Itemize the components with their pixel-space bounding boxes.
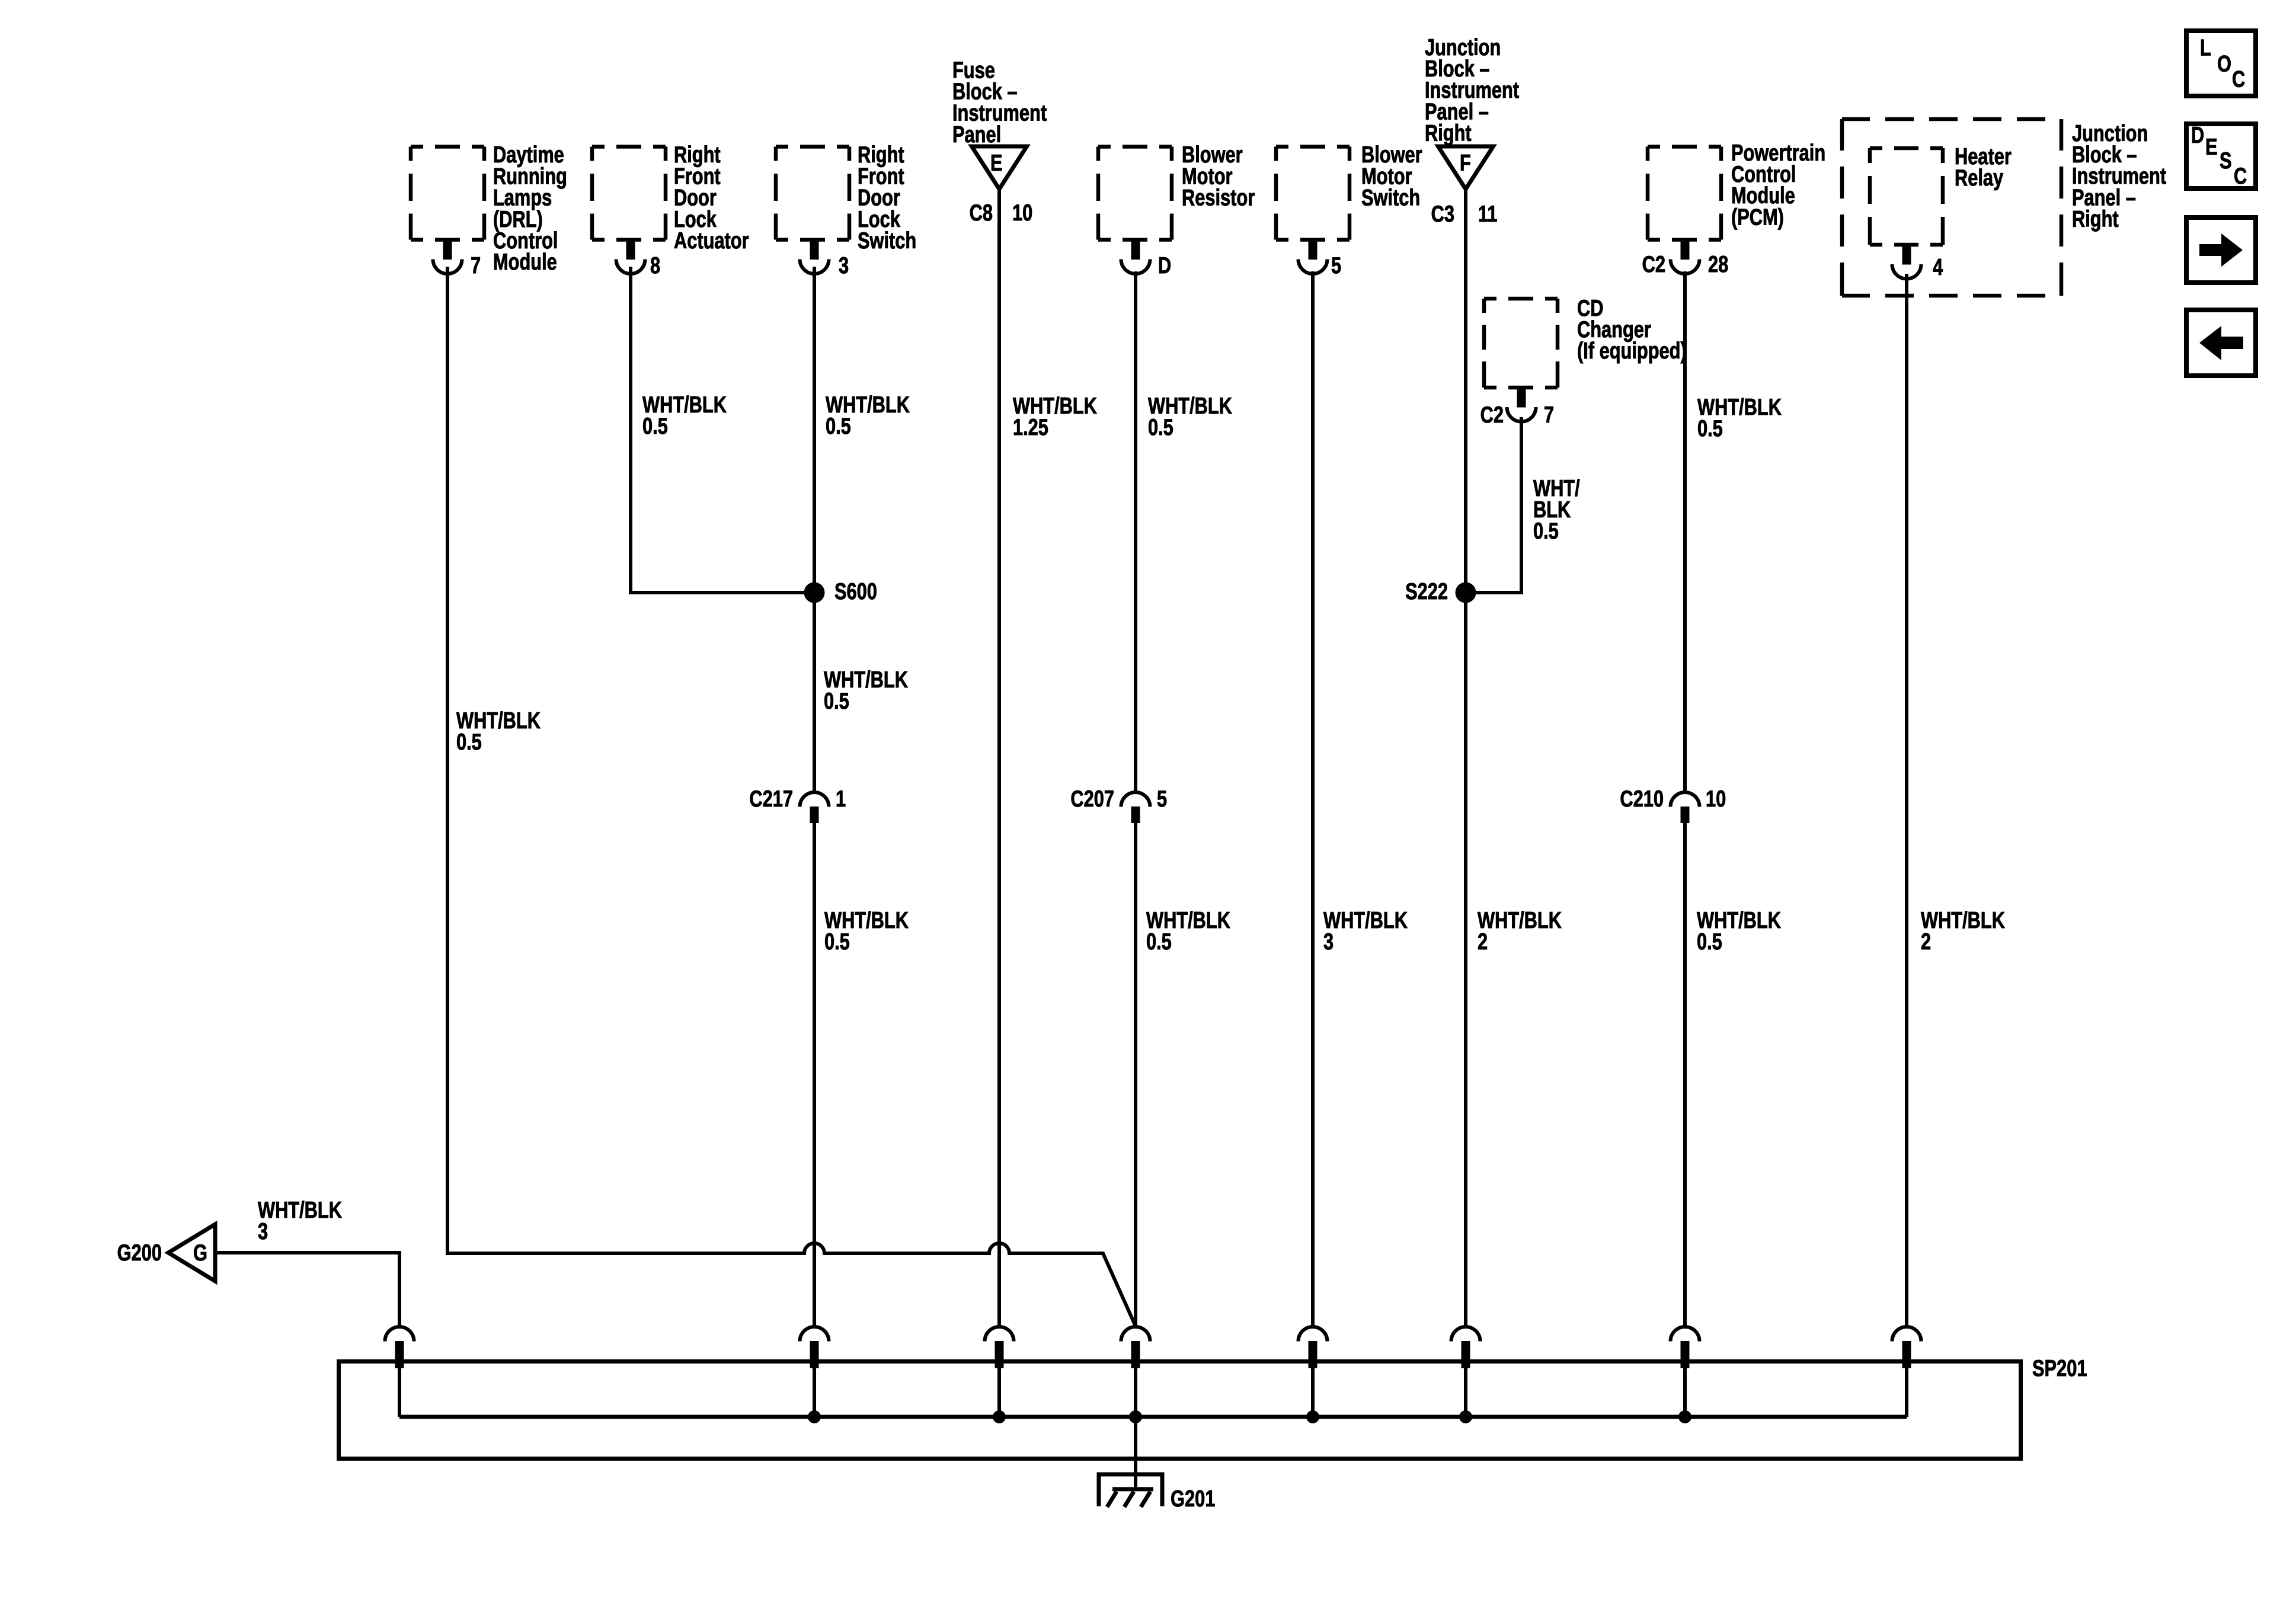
svg-text:(PCM): (PCM) xyxy=(1731,204,1784,230)
svg-text:C210: C210 xyxy=(1620,786,1664,812)
svg-text:WHT/BLK: WHT/BLK xyxy=(258,1197,343,1222)
svg-text:L: L xyxy=(2200,35,2211,60)
svg-text:0.5: 0.5 xyxy=(826,414,851,439)
svg-text:C207: C207 xyxy=(1070,786,1114,812)
svg-text:Right: Right xyxy=(1425,120,1472,146)
svg-text:C2: C2 xyxy=(1480,402,1504,428)
svg-text:0.5: 0.5 xyxy=(1697,416,1723,441)
svg-text:0.5: 0.5 xyxy=(1533,519,1559,544)
svg-text:7: 7 xyxy=(471,253,481,279)
svg-text:WHT/BLK: WHT/BLK xyxy=(1478,907,1562,933)
svg-text:5: 5 xyxy=(1157,786,1167,812)
svg-text:3: 3 xyxy=(1323,929,1334,955)
svg-text:O: O xyxy=(2217,51,2231,76)
svg-text:G201: G201 xyxy=(1171,1486,1215,1512)
svg-text:(If equipped): (If equipped) xyxy=(1577,338,1687,364)
svg-text:SP201: SP201 xyxy=(2032,1356,2087,1381)
svg-text:10: 10 xyxy=(1706,786,1726,812)
svg-text:Right: Right xyxy=(2072,206,2119,232)
svg-text:Switch: Switch xyxy=(1361,185,1420,210)
svg-text:1: 1 xyxy=(836,786,846,812)
svg-text:2: 2 xyxy=(1921,929,1931,955)
svg-text:C2: C2 xyxy=(1642,252,1665,277)
svg-text:C: C xyxy=(2232,66,2245,92)
svg-text:Panel: Panel xyxy=(952,121,1001,147)
svg-text:D: D xyxy=(1158,253,1171,279)
svg-text:Resistor: Resistor xyxy=(1182,185,1255,210)
svg-text:G200: G200 xyxy=(117,1240,162,1266)
svg-text:WHT/BLK: WHT/BLK xyxy=(1921,907,2006,933)
svg-text:Module: Module xyxy=(493,249,557,275)
svg-text:E: E xyxy=(990,151,1003,176)
svg-text:S222: S222 xyxy=(1405,579,1448,604)
svg-text:0.5: 0.5 xyxy=(824,689,849,714)
svg-text:10: 10 xyxy=(1012,200,1032,226)
svg-text:S600: S600 xyxy=(834,579,877,604)
svg-text:C8: C8 xyxy=(970,200,993,226)
svg-text:C3: C3 xyxy=(1431,201,1454,227)
svg-text:WHT/BLK: WHT/BLK xyxy=(1323,907,1408,933)
svg-text:E: E xyxy=(2205,135,2218,160)
svg-text:D: D xyxy=(2191,123,2204,148)
svg-text:0.5: 0.5 xyxy=(642,414,668,439)
svg-text:0.5: 0.5 xyxy=(1697,929,1722,955)
svg-text:8: 8 xyxy=(650,253,660,279)
svg-text:7: 7 xyxy=(1544,402,1554,428)
svg-text:0.5: 0.5 xyxy=(1148,415,1173,440)
svg-text:0.5: 0.5 xyxy=(824,929,850,955)
svg-text:3: 3 xyxy=(839,253,849,279)
svg-text:C217: C217 xyxy=(749,786,793,812)
svg-text:G: G xyxy=(193,1240,207,1266)
svg-text:11: 11 xyxy=(1478,201,1498,227)
svg-text:Switch: Switch xyxy=(858,228,916,254)
svg-text:28: 28 xyxy=(1708,252,1728,277)
svg-text:1.25: 1.25 xyxy=(1013,415,1048,440)
svg-text:Actuator: Actuator xyxy=(674,228,749,254)
svg-text:F: F xyxy=(1460,151,1471,176)
svg-text:0.5: 0.5 xyxy=(456,729,482,755)
svg-text:3: 3 xyxy=(258,1219,268,1244)
svg-text:S: S xyxy=(2220,148,2232,174)
svg-text:0.5: 0.5 xyxy=(1146,929,1172,955)
svg-text:2: 2 xyxy=(1478,929,1488,955)
svg-text:4: 4 xyxy=(1933,255,1943,280)
svg-text:5: 5 xyxy=(1331,253,1341,279)
svg-text:C: C xyxy=(2234,164,2247,189)
svg-text:Relay: Relay xyxy=(1955,165,2004,191)
